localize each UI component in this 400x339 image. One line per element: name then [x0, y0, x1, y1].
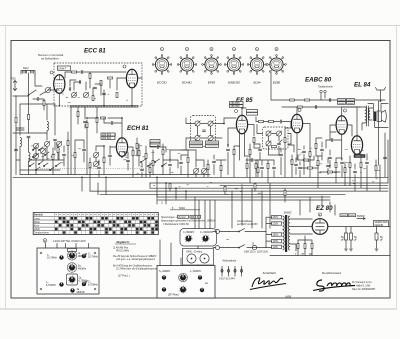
svg-text:EZ80: EZ80 [273, 81, 281, 85]
svg-text:D: D [44, 239, 46, 243]
extra AM trimmers [33, 143, 59, 159]
oscillator coil assembly [93, 152, 111, 167]
mixer grid components [86, 117, 140, 162]
svg-text:2U 9,2: 2U 9,2 [178, 216, 186, 219]
brand script left [250, 278, 286, 290]
dimension arrow left [11, 78, 17, 91]
alignment panel box [37, 248, 99, 294]
audio stage resistors [291, 157, 332, 165]
svg-text:6,75MHz: 6,75MHz [46, 284, 57, 287]
schematic frame [11, 41, 390, 299]
IF filter panel [157, 266, 215, 299]
output transformer [365, 106, 370, 126]
loudspeaker [368, 104, 388, 128]
table header ticks [56, 214, 158, 216]
AM antenna coil column [27, 95, 31, 175]
top row resistors [289, 98, 330, 109]
svg-text:EZ 80: EZ 80 [316, 205, 333, 212]
dropper resistor trio [295, 236, 313, 256]
coupling capacitor C20 [331, 138, 332, 142]
svg-text:mit Stellschillern: mit Stellschillern [41, 57, 59, 60]
tube socket pinout ECC81 [152, 48, 172, 85]
svg-text:110V: 110V [273, 246, 279, 249]
page sheet edge top [0, 25, 400, 27]
panel leads [46, 244, 89, 249]
trimmer box feeders [195, 197, 210, 229]
svg-text:6,75MHz: 6,75MHz [88, 284, 99, 287]
600 ohm note [170, 207, 200, 210]
svg-text:UKW-T: UKW-T [59, 68, 67, 71]
bus line heater2 [90, 190, 388, 192]
wire [256, 117, 291, 128]
boxed label pair ECH81 [101, 133, 115, 140]
svg-text:EF85: EF85 [208, 81, 216, 85]
UKW Drehko box [183, 249, 214, 266]
wire [36, 144, 58, 175]
wire [304, 138, 322, 177]
boxed label right of ECH81 [150, 140, 160, 147]
misc right components [298, 157, 387, 173]
svg-text:BV66C: BV66C [284, 212, 292, 215]
ratio det connections [257, 125, 291, 156]
bus line cathode [100, 194, 345, 196]
padder capacitors [179, 150, 196, 177]
trimmer knob housing lower [67, 274, 90, 285]
ratio detector can [263, 127, 289, 149]
resistor column Widerstaende [219, 260, 243, 281]
transformer tap boxes [266, 216, 282, 249]
panel header circled D [43, 239, 47, 243]
wire [292, 150, 330, 188]
EF85 pin wiring [224, 108, 254, 160]
svg-text:ECC81: ECC81 [157, 81, 167, 85]
dipole antenna [21, 67, 35, 95]
boxed label pair right of EF85 [247, 110, 258, 116]
svg-text:µF: µF [341, 239, 344, 242]
coupling capacitors UKW [69, 80, 105, 95]
resistors UKW [92, 77, 118, 101]
bus junction dots [81, 176, 187, 192]
oscillator extra parts [136, 143, 159, 172]
tube socket pinout EABC80 [224, 48, 244, 85]
svg-text:460kHz: 460kHz [77, 291, 86, 294]
boxed note right [374, 221, 389, 227]
coupling to EL84 [330, 107, 352, 160]
tone corrector [344, 162, 369, 172]
svg-text:10,7MHz: 10,7MHz [88, 256, 99, 259]
bus-mounted resistors [169, 183, 286, 195]
trimmer knob C1 [82, 253, 99, 259]
svg-text:EABC 80: EABC 80 [305, 77, 332, 84]
wire [146, 144, 170, 177]
UKW tuner dashed enclosure [54, 63, 142, 106]
UKW box internal parts [65, 70, 126, 88]
detector diode row [258, 120, 281, 124]
svg-text:C₂ 6000kHz: C₂ 6000kHz [200, 231, 214, 234]
svg-text:FM 9,2 MHz: FM 9,2 MHz [116, 250, 130, 253]
svg-text:220V: 220V [273, 223, 279, 226]
ground return bus [270, 255, 390, 257]
trimmer knob center big [67, 263, 87, 273]
AM wiring lower [64, 132, 84, 175]
AM secondary resistors [62, 140, 86, 157]
svg-text:Dipol: Dipol [23, 67, 29, 70]
trimmer knob lower right [82, 281, 99, 287]
heater tap wires [290, 202, 335, 251]
wire [300, 162, 340, 177]
svg-text:ECH81: ECH81 [182, 81, 192, 85]
heater drops to power section [300, 196, 322, 215]
tube socket pinout EF85 [202, 48, 222, 85]
svg-text:Rad.-Nr. 0000000087: Rad.-Nr. 0000000087 [352, 288, 376, 291]
svg-text:auf 110V und 125V: auf 110V und 125V [237, 223, 258, 226]
volume potentiometer [279, 128, 291, 177]
tube V5 EABC80 [291, 109, 302, 133]
svg-text:GEÄND.: GEÄND. [375, 224, 385, 227]
svg-text:± Meßtoleranz ±20% 50: ± Meßtoleranz ±20% 50 [163, 223, 189, 226]
svg-text:240V: 240V [273, 216, 279, 219]
table row labels [34, 214, 49, 235]
svg-text:(ZF-Filter): (ZF-Filter) [168, 294, 179, 297]
osc coil circles [193, 160, 207, 177]
EL84 cathode network [326, 162, 351, 167]
right edge FM antenna [376, 88, 386, 102]
UKW bar drops [77, 111, 98, 122]
pickup jack Tonabnehmer [318, 86, 333, 101]
svg-text:Tonabnehmer: Tonabnehmer [34, 232, 49, 235]
svg-text:Schaltbild: Schaltbild [263, 271, 276, 275]
tube socket pinout ECH81 [177, 48, 197, 85]
heater lines [158, 197, 330, 200]
trimmer knob L1 [67, 249, 86, 261]
value annotations [28, 94, 380, 194]
page sheet edge bottom [0, 308, 397, 310]
wire [246, 158, 258, 177]
table marks [55, 217, 158, 234]
resistor row mid [145, 149, 172, 165]
if output coupling [207, 161, 222, 170]
wire [71, 107, 97, 175]
boxed labels NSF [340, 214, 365, 220]
filter electrolytics [341, 227, 357, 252]
wire [137, 138, 166, 177]
right edge vertical drops [376, 101, 388, 191]
svg-text:EL 84: EL 84 [354, 82, 371, 89]
bus verticals left [82, 177, 186, 204]
dark boxed labels right top [338, 99, 355, 105]
rounded trimmer box [180, 229, 217, 247]
svg-text:UKW: UKW [34, 228, 40, 231]
Abgleich header [115, 240, 136, 244]
IF can value labels [190, 141, 219, 147]
de-emphasis network [255, 163, 276, 168]
boxed values in note [178, 215, 201, 219]
svg-text:286 B06: 286 B06 [231, 105, 241, 108]
tube V2 ECC81b [123, 65, 138, 88]
boxed label pair above EF85 [230, 102, 244, 109]
screen bypass [223, 107, 243, 146]
box label UKW-Teil [58, 66, 71, 71]
wave switch contacts [32, 147, 55, 165]
svg-text:~: ~ [226, 238, 229, 244]
tube socket pinout EL84 [247, 48, 267, 85]
svg-text:C₁ 800kHz: C₁ 800kHz [183, 231, 195, 234]
svg-text:EABC80: EABC80 [228, 81, 240, 85]
wire [33, 92, 45, 110]
svg-text:10,7MHz über der Empfangsfr: 10,7MHz über der Empfangsfrequenz [116, 268, 157, 271]
svg-text:460kHz: 460kHz [78, 268, 87, 271]
junction dots mains [238, 231, 240, 249]
dotted AGC line [40, 168, 145, 170]
wire [208, 155, 226, 177]
fuse Si [244, 243, 268, 254]
agc filter parts [246, 158, 259, 172]
svg-text:µF: µF [354, 239, 357, 242]
trimmer knob bottom [70, 288, 85, 294]
heater verticals [157, 183, 270, 228]
junction dots ECH81 [86, 117, 123, 158]
svg-text:0 627 62 1444: 0 627 62 1444 [219, 278, 235, 281]
svg-text:ECC 81: ECC 81 [84, 48, 106, 55]
bus line agc [220, 185, 388, 187]
manufacturer text [352, 281, 376, 291]
IF transformer can 1 [191, 116, 216, 147]
output transformer wiring [342, 107, 374, 137]
svg-text:LANG MITTEL KURZ UKW: LANG MITTEL KURZ UKW [53, 239, 86, 243]
svg-text:75Ω: 75Ω [11, 78, 16, 81]
wire [345, 154, 367, 191]
svg-text:125V: 125V [273, 240, 279, 243]
mains switch wires [228, 232, 266, 248]
tube V3 ECH81 [113, 133, 128, 156]
ECH81 wiring [87, 118, 139, 177]
panel connecting leads [160, 240, 198, 266]
ferrite rod antenna bar [16, 128, 24, 130]
UKW wiring [35, 74, 142, 106]
bus line b+ [150, 182, 388, 184]
svg-text:(27-Pos.) ): (27-Pos.) ) [118, 275, 130, 278]
svg-text:ECH 81: ECH 81 [127, 125, 149, 132]
tube V4 EF85 [235, 110, 248, 134]
notes lines [113, 247, 157, 278]
wire [170, 183, 285, 202]
antenna input switch [28, 90, 36, 96]
svg-text:Kurz: Kurz [34, 224, 40, 227]
page sheet edge left [5, 26, 7, 310]
svg-text:EL84: EL84 [253, 81, 260, 85]
rectifier wiring [290, 219, 390, 234]
wire [328, 156, 350, 186]
left column feeder [13, 96, 29, 175]
svg-text:L4/56: L4/56 [285, 296, 292, 299]
output electrolytic [375, 227, 384, 252]
svg-text:L₃ 600kHz: L₃ 600kHz [190, 270, 202, 273]
osc feedback parts [89, 162, 101, 168]
mains plug [213, 230, 229, 250]
svg-text:UKW – Drehko: UKW – Drehko [186, 251, 203, 254]
tube socket pinout EZ80 [267, 48, 287, 85]
voltage selector text [237, 220, 258, 226]
svg-text:150V: 150V [273, 234, 279, 237]
svg-text:Abgleich:: Abgleich: [115, 240, 130, 244]
UKW unit chassis bar [70, 106, 138, 107]
wire [256, 160, 274, 183]
left tie lines [20, 133, 60, 170]
IF can 1 connections [186, 118, 224, 150]
antenna trap parts [37, 97, 45, 105]
EABC80 wiring [288, 107, 310, 160]
wire [326, 140, 341, 148]
voltage table grid [33, 213, 158, 235]
supply bus [20, 174, 210, 176]
note text right of table [161, 216, 216, 226]
svg-text:und gem. u.a. als Eingangsfreq: und gem. u.a. als Eingangsfrequenz [116, 258, 156, 261]
trimmer knob lower left [46, 281, 64, 287]
extra band switch contacts [29, 163, 60, 171]
tube V1 ECC81a [50, 71, 65, 93]
bus line heater1 [150, 187, 388, 189]
panel screws [40, 252, 96, 290]
svg-text:286 B04: 286 B04 [102, 137, 112, 140]
svg-text:Widerstände: Widerstände [223, 260, 237, 263]
svg-text:Lang: Lang [34, 217, 40, 220]
tube V8 EZ80 [312, 213, 328, 234]
svg-text:µF: µF [380, 239, 383, 242]
top feed line right [271, 72, 385, 107]
svg-text:0,8A 110 u. 125V (2A): 0,8A 110 u. 125V (2A) [244, 251, 268, 254]
ground bus [13, 176, 388, 178]
tube V6 EL84 [336, 109, 347, 134]
svg-text:Rundfunkwerk: Rundfunkwerk [322, 271, 342, 275]
mixer plate feed [163, 150, 188, 175]
oscillator switch contacts [140, 159, 166, 167]
switch blades [239, 229, 245, 248]
junction dots UKW [58, 105, 132, 107]
svg-text:Bereich: Bereich [34, 214, 43, 217]
Sonata script signature [313, 280, 355, 291]
svg-text:S₁ 460kHz: S₁ 460kHz [159, 270, 171, 273]
AM input coils cluster [20, 104, 64, 175]
mains transformer [283, 212, 292, 253]
tube V7 output triode [351, 136, 365, 158]
detector components [302, 143, 324, 156]
trimmer knob L2 [47, 254, 64, 260]
grid trimmer coils [45, 87, 89, 98]
page sheet edge right [396, 26, 398, 310]
wire [228, 143, 260, 183]
svg-text:10,7MHz: 10,7MHz [47, 257, 58, 260]
svg-text:Tonabnehmer: Tonabnehmer [318, 86, 333, 89]
EF85 cathode components [226, 137, 262, 154]
wire [90, 158, 99, 177]
